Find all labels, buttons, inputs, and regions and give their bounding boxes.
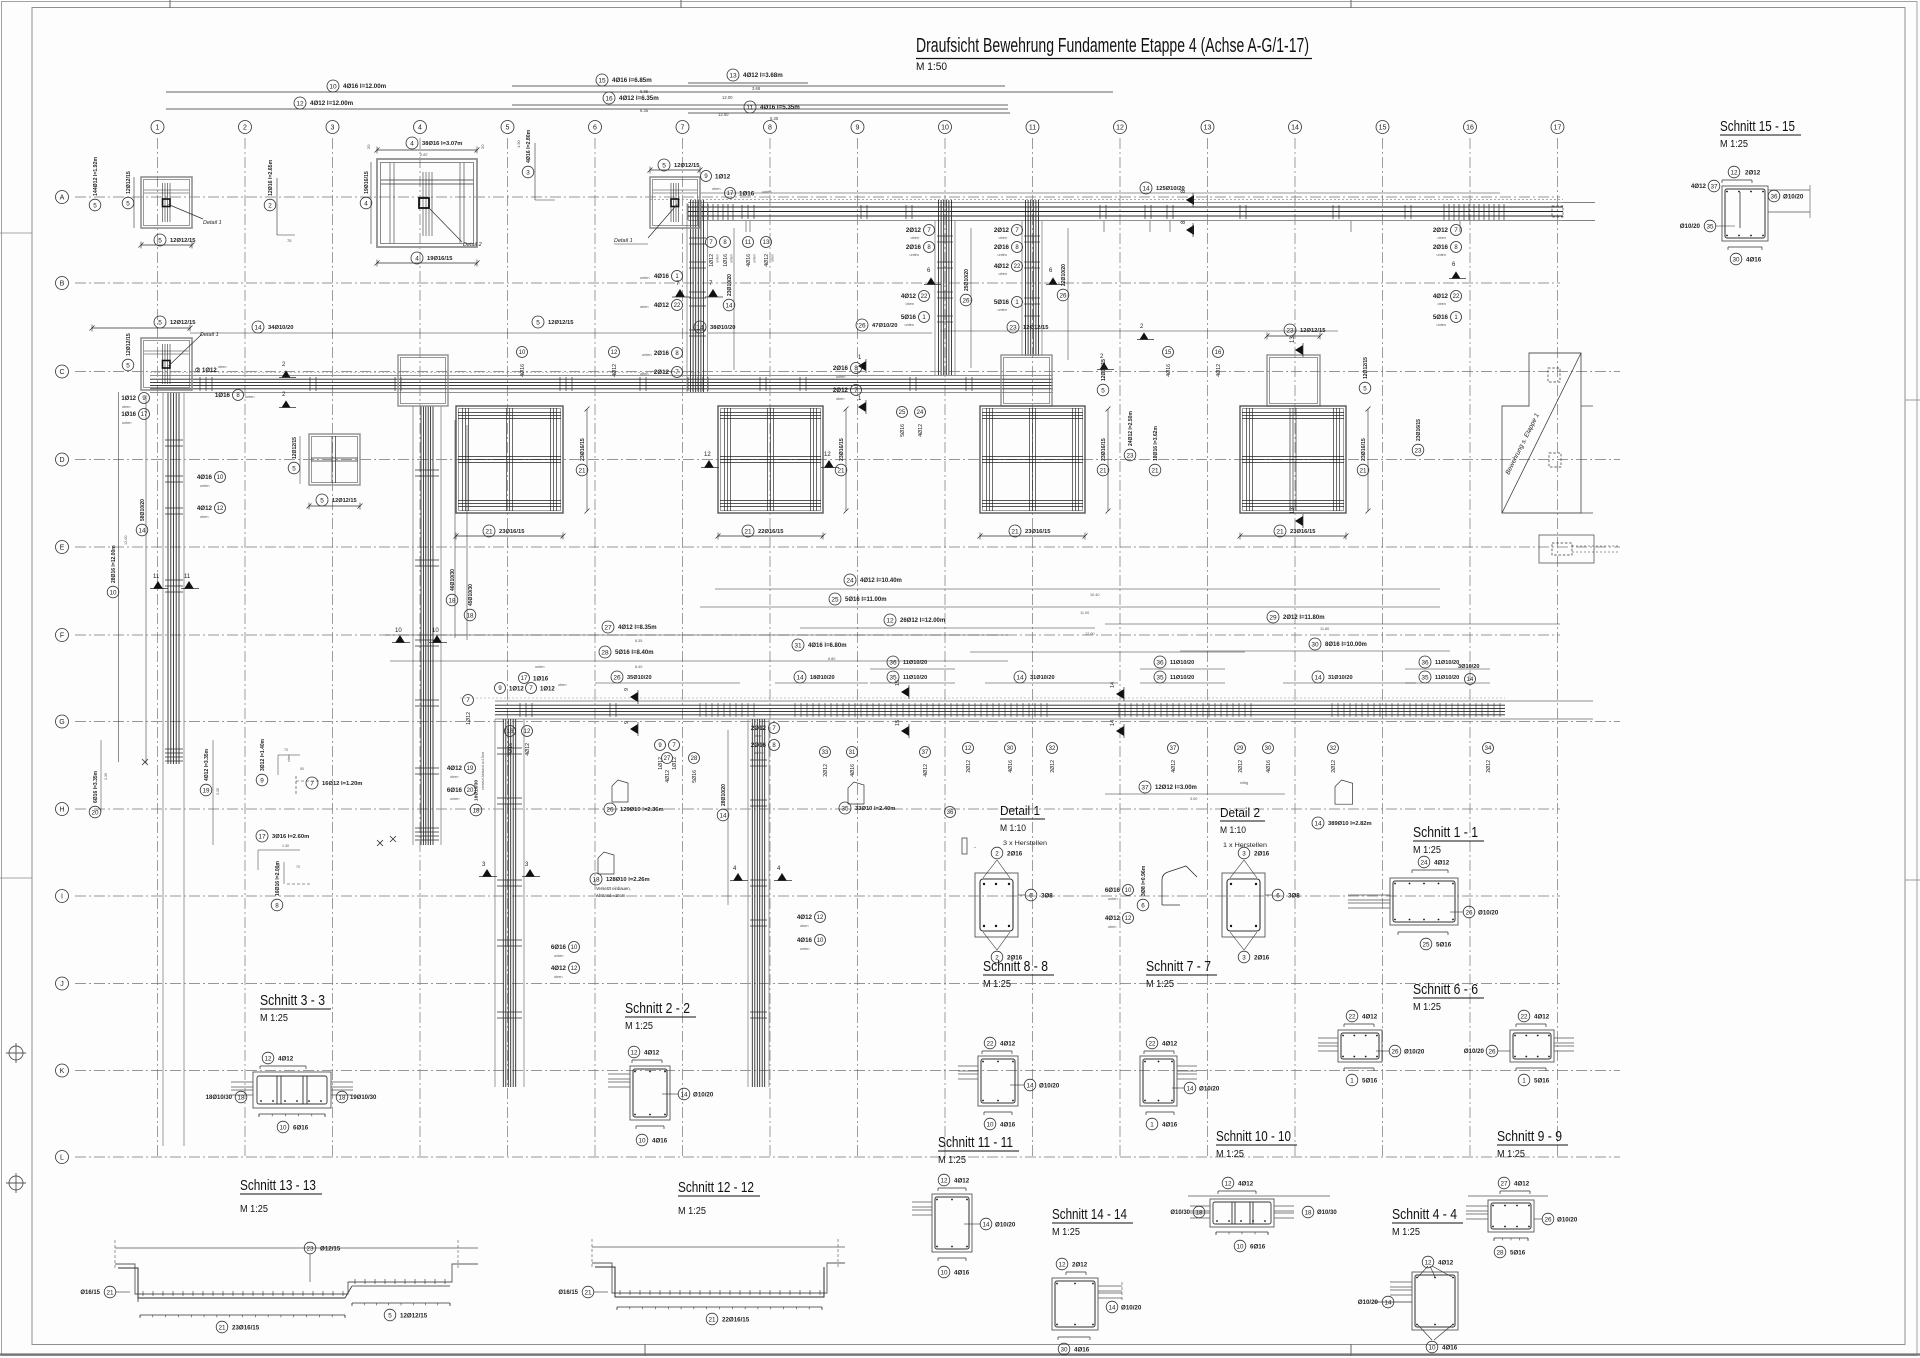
svg-text:4Ø12: 4Ø12 — [1514, 1181, 1530, 1188]
svg-text:14: 14 — [1467, 677, 1474, 683]
svg-text:9: 9 — [624, 721, 630, 724]
vertical strip grid 5 below G — [494, 719, 496, 1087]
svg-text:14: 14 — [725, 302, 733, 309]
svg-text:20: 20 — [91, 809, 99, 816]
svg-text:1Ø12: 1Ø12 — [709, 254, 715, 267]
svg-text:oben: oben — [287, 754, 291, 762]
grid10 strip ticks — [937, 236, 953, 322]
svg-text:12Ø12/15: 12Ø12/15 — [548, 320, 574, 326]
svg-text:5: 5 — [158, 319, 162, 326]
svg-text:25Ø10/20: 25Ø10/20 — [964, 269, 970, 291]
svg-text:2Ø16: 2Ø16 — [833, 365, 849, 372]
svg-text:35: 35 — [841, 805, 849, 812]
section marker 1-1 right — [858, 361, 866, 371]
dim 23 12O12/15 C14 — [1284, 324, 1296, 336]
svg-text:18: 18 — [592, 876, 600, 883]
vertical strip grid 11 (A-pad C11) — [1021, 221, 1023, 356]
svg-text:12.00: 12.00 — [722, 95, 733, 100]
pad A1 dimensions — [89, 199, 101, 211]
registration mark 2 — [9, 1176, 23, 1190]
svg-text:4Ø12 l=10.40m: 4Ø12 l=10.40m — [860, 578, 902, 584]
svg-text:3.35: 3.35 — [104, 773, 108, 780]
svg-text:36: 36 — [1421, 659, 1429, 666]
svg-text:21: 21 — [1276, 528, 1284, 535]
svg-text:7: 7 — [681, 125, 685, 132]
dashed detail 7 16O12 — [295, 776, 297, 796]
svg-text:M 1:25: M 1:25 — [260, 1013, 288, 1024]
svg-text:Ø16/15: Ø16/15 — [80, 1290, 100, 1296]
svg-text:10: 10 — [1236, 1243, 1244, 1250]
svg-text:35: 35 — [1421, 674, 1429, 681]
pad C4 (stem with strip) — [398, 355, 448, 406]
svg-text:4Ø16: 4Ø16 — [520, 364, 526, 377]
vertical strip grid 4 (padC4-down) — [412, 406, 414, 845]
pad A4 dimensions — [406, 137, 418, 149]
svg-text:22: 22 — [674, 303, 681, 309]
grid4 strip rebar — [421, 406, 433, 845]
svg-text:70: 70 — [284, 748, 288, 752]
svg-text:unten: unten — [997, 253, 1007, 257]
svg-text:Schnitt 9 - 9: Schnitt 9 - 9 — [1497, 1128, 1562, 1145]
svg-text:4Ø12: 4Ø12 — [1216, 364, 1222, 377]
grid7 strip rebar — [691, 200, 704, 392]
svg-text:4Ø12: 4Ø12 — [1438, 1260, 1454, 1267]
pad D5 (large hatched) — [456, 406, 563, 513]
svg-text:M 1:25: M 1:25 — [1392, 1227, 1420, 1238]
H row dim labels — [89, 806, 101, 818]
dim 3 4O16 — [522, 166, 534, 178]
svg-text:10: 10 — [1428, 1344, 1436, 1351]
svg-text:11: 11 — [1029, 125, 1036, 132]
axis A end detail grid 17 — [1552, 206, 1563, 217]
svg-text:5: 5 — [662, 162, 666, 169]
svg-text:12: 12 — [1424, 1259, 1432, 1266]
svg-text:36: 36 — [889, 659, 897, 666]
svg-text:4Ø16: 4Ø16 — [652, 1138, 668, 1145]
svg-text:4Ø12: 4Ø12 — [1162, 1041, 1178, 1048]
svg-text:15: 15 — [895, 680, 901, 686]
svg-text:23Ø16/15: 23Ø16/15 — [580, 438, 586, 461]
svg-text:M 1:25: M 1:25 — [1216, 1149, 1244, 1160]
svg-text:Ø10/20: Ø10/20 — [693, 1092, 714, 1099]
svg-text:2Ø16: 2Ø16 — [994, 244, 1010, 251]
svg-text:4: 4 — [418, 125, 422, 132]
svg-text:Ø10/20: Ø10/20 — [1478, 910, 1499, 917]
svg-text:oben: oben — [771, 254, 775, 262]
svg-text:4Ø12: 4Ø12 — [764, 254, 770, 267]
svg-text:3: 3 — [1242, 850, 1246, 857]
svg-text:12Ø12/15: 12Ø12/15 — [170, 238, 196, 244]
svg-text:11: 11 — [745, 240, 752, 246]
pad bottom dimensions — [483, 525, 495, 537]
svg-text:12: 12 — [524, 729, 531, 735]
labels below axis G — [655, 740, 666, 751]
svg-text:4Ø12: 4Ø12 — [612, 364, 618, 377]
svg-text:M 1:25: M 1:25 — [938, 1155, 966, 1166]
svg-text:Schnitt 11 - 11: Schnitt 11 - 11 — [938, 1134, 1013, 1151]
E row arrow line — [1189, 199, 1191, 201]
svg-text:14: 14 — [254, 324, 262, 331]
svg-text:4Ø12: 4Ø12 — [923, 764, 929, 777]
svg-text:M 1:10: M 1:10 — [1220, 825, 1246, 836]
svg-text:18: 18 — [472, 807, 480, 814]
svg-text:5Ø16: 5Ø16 — [901, 314, 917, 321]
svg-text:Detail 1: Detail 1 — [203, 220, 222, 226]
svg-text:23Ø16/15: 23Ø16/15 — [1361, 438, 1367, 461]
dim 37 12O12 — [1139, 781, 1151, 793]
vertical dims grid1 — [118, 392, 120, 762]
svg-text:35: 35 — [1706, 223, 1714, 230]
svg-text:4Ø12: 4Ø12 — [918, 424, 924, 437]
svg-text:5Ø16: 5Ø16 — [1436, 942, 1452, 949]
svg-text:2Ø12: 2Ø12 — [1072, 1262, 1088, 1269]
svg-text:22: 22 — [1520, 1013, 1528, 1020]
svg-text:8Ø16 l=10.00m: 8Ø16 l=10.00m — [1325, 642, 1367, 648]
svg-text:11Ø10/20: 11Ø10/20 — [1435, 675, 1459, 681]
svg-text:2: 2 — [243, 125, 247, 132]
svg-text:K: K — [60, 1068, 65, 1075]
svg-text:389Ø10 l=2.82m: 389Ø10 l=2.82m — [1328, 821, 1372, 827]
svg-text:12Ø12/15: 12Ø12/15 — [1300, 328, 1326, 334]
top dimension group — [327, 80, 339, 92]
section marker 15 on G — [901, 687, 909, 697]
svg-text:11Ø10/20: 11Ø10/20 — [1435, 660, 1459, 666]
svg-text:14: 14 — [796, 674, 804, 681]
svg-text:H: H — [59, 807, 64, 814]
svg-text:Schnitt 1 - 1: Schnitt 1 - 1 — [1413, 824, 1478, 841]
svg-text:29: 29 — [1269, 614, 1277, 621]
svg-text:2Ø16: 2Ø16 — [1254, 955, 1270, 962]
svg-text:22: 22 — [921, 294, 928, 300]
svg-text:24Ø12 l=2.50m: 24Ø12 l=2.50m — [1128, 411, 1134, 446]
strip footing axis G — [495, 700, 1593, 702]
svg-text:4Ø16: 4Ø16 — [1442, 1345, 1458, 1352]
svg-text:Schnitt 10 - 10: Schnitt 10 - 10 — [1216, 1128, 1291, 1145]
svg-text:oben: oben — [712, 187, 720, 191]
svg-text:34: 34 — [1485, 746, 1492, 752]
svg-text:8.40: 8.40 — [635, 665, 642, 669]
svg-text:37: 37 — [922, 750, 929, 756]
svg-text:oben: oben — [640, 305, 648, 309]
svg-text:17: 17 — [521, 676, 528, 682]
svg-text:12: 12 — [264, 1055, 272, 1062]
svg-text:11.00: 11.00 — [1080, 611, 1089, 615]
svg-text:37: 37 — [1170, 746, 1177, 752]
svg-text:4: 4 — [364, 200, 368, 207]
svg-text:versetzt Abstand a=15cm: versetzt Abstand a=15cm — [481, 752, 485, 790]
vertical dims right pads area — [1097, 384, 1109, 396]
svg-text:28: 28 — [691, 756, 698, 762]
svg-text:12: 12 — [1125, 916, 1132, 922]
svg-text:Schnitt 7 - 7: Schnitt 7 - 7 — [1146, 958, 1211, 975]
svg-text:oben: oben — [200, 515, 208, 519]
svg-text:Ø10/20: Ø10/20 — [995, 1222, 1016, 1229]
svg-text:25: 25 — [899, 410, 906, 416]
svg-text:31: 31 — [794, 642, 802, 649]
svg-text:14: 14 — [719, 812, 727, 819]
grid5 lower strip ticks — [497, 748, 522, 1018]
svg-text:1.90: 1.90 — [516, 139, 521, 148]
svg-text:Schnitt 14 - 14: Schnitt 14 - 14 — [1052, 1206, 1127, 1223]
svg-text:1.30: 1.30 — [282, 844, 289, 848]
svg-text:4Ø12: 4Ø12 — [1691, 183, 1707, 190]
svg-text:10: 10 — [395, 628, 402, 634]
svg-text:21: 21 — [1099, 467, 1107, 474]
svg-text:1: 1 — [1522, 1077, 1526, 1084]
svg-text:12: 12 — [940, 1177, 948, 1184]
svg-text:M 1:50: M 1:50 — [916, 61, 947, 73]
svg-text:29: 29 — [1237, 746, 1244, 752]
svg-text:12.00: 12.00 — [124, 535, 128, 545]
svg-text:26: 26 — [606, 806, 614, 813]
svg-text:3Ø10/20: 3Ø10/20 — [1458, 664, 1479, 670]
svg-text:12Ø12/15: 12Ø12/15 — [1023, 325, 1049, 331]
svg-text:Ø10/20: Ø10/20 — [1039, 1083, 1060, 1090]
svg-text:Schnitt 3 - 3: Schnitt 3 - 3 — [260, 992, 325, 1009]
dashed column boxes — [1548, 368, 1560, 382]
svg-text:6Ø16: 6Ø16 — [1250, 1244, 1266, 1251]
svg-text:12: 12 — [1224, 1180, 1232, 1187]
svg-text:4Ø16: 4Ø16 — [654, 273, 670, 280]
svg-text:23Ø16/15: 23Ø16/15 — [1290, 529, 1316, 535]
svg-text:Versetzt einbauen,: Versetzt einbauen, — [596, 886, 631, 891]
svg-text:18: 18 — [237, 1094, 245, 1101]
svg-text:24: 24 — [846, 577, 854, 584]
svg-text:12.00: 12.00 — [1085, 632, 1095, 636]
svg-text:12: 12 — [886, 617, 894, 624]
svg-text:4Ø12 l=12.00m: 4Ø12 l=12.00m — [310, 100, 354, 107]
svg-text:16Ø12 l=1.20m: 16Ø12 l=1.20m — [322, 781, 362, 787]
svg-text:22: 22 — [1348, 1013, 1356, 1020]
svg-text:2Ø12: 2Ø12 — [1433, 227, 1449, 234]
axis G rebar lines — [495, 705, 1505, 715]
svg-text:10: 10 — [571, 945, 578, 951]
svg-text:21: 21 — [485, 528, 493, 535]
svg-text:14: 14 — [680, 1091, 688, 1098]
svg-text:F: F — [60, 633, 64, 640]
svg-text:2Ø12: 2Ø12 — [654, 369, 670, 376]
svg-text:4Ø16 l=12.00m: 4Ø16 l=12.00m — [343, 83, 387, 90]
svg-text:12: 12 — [1058, 1261, 1066, 1268]
svg-text:144Ø12 l=1.92m: 144Ø12 l=1.92m — [93, 157, 99, 196]
svg-text:4Ø16: 4Ø16 — [508, 743, 514, 756]
svg-text:E: E — [60, 545, 65, 552]
svg-text:129Ø10 l=2.36m: 129Ø10 l=2.36m — [620, 807, 664, 813]
X marks strip ends — [142, 759, 148, 765]
dim 26 47O10/20 — [856, 319, 868, 331]
svg-text:10: 10 — [432, 628, 439, 634]
svg-text:1: 1 — [1150, 1121, 1154, 1128]
svg-text:23: 23 — [1286, 327, 1294, 334]
svg-text:12: 12 — [630, 1049, 638, 1056]
lower small rect with dashed box — [1539, 535, 1594, 563]
svg-text:70: 70 — [296, 865, 300, 869]
svg-text:8.35: 8.35 — [635, 639, 642, 643]
svg-text:12: 12 — [965, 746, 972, 752]
svg-text:D: D — [59, 457, 64, 464]
svg-text:4Ø16: 4Ø16 — [1746, 257, 1762, 264]
vertical dims grid4 strip — [454, 420, 456, 638]
svg-text:6Ø16: 6Ø16 — [447, 787, 463, 794]
svg-text:Schnitt 4 - 4: Schnitt 4 - 4 — [1392, 1206, 1457, 1223]
svg-text:12: 12 — [571, 966, 578, 972]
svg-text:4Ø16 l=5.35m: 4Ø16 l=5.35m — [760, 104, 800, 111]
grid column axis lines — [158, 138, 1558, 1157]
svg-text:22: 22 — [986, 1040, 994, 1047]
svg-text:unten: unten — [535, 665, 545, 669]
svg-text:2Ø16: 2Ø16 — [654, 350, 670, 357]
svg-text:Ø10/20: Ø10/20 — [1404, 1049, 1425, 1056]
svg-text:26: 26 — [1465, 909, 1473, 916]
svg-text:14: 14 — [1142, 185, 1150, 192]
bent bar shape glyph — [612, 780, 628, 802]
svg-text:12: 12 — [824, 452, 831, 458]
svg-text:5: 5 — [506, 125, 510, 132]
bent bar shape glyph — [848, 782, 864, 804]
svg-text:5: 5 — [388, 1312, 392, 1319]
svg-text:1Ø12: 1Ø12 — [672, 757, 678, 770]
svg-text:30: 30 — [1060, 1346, 1068, 1353]
svg-text:4Ø16 l=2.80m: 4Ø16 l=2.80m — [526, 129, 532, 163]
svg-text:6: 6 — [1029, 892, 1033, 899]
svg-text:6Ø16: 6Ø16 — [551, 944, 567, 951]
svg-text:4Ø16: 4Ø16 — [1166, 364, 1172, 377]
svg-text:2Ø12: 2Ø12 — [906, 227, 922, 234]
svg-text:Abstand =15cm: Abstand =15cm — [596, 893, 626, 898]
svg-text:2Ø12: 2Ø12 — [966, 760, 972, 773]
svg-text:L: L — [60, 1155, 64, 1162]
section marker 14 on G — [1116, 689, 1124, 699]
svg-text:12: 12 — [217, 506, 224, 512]
svg-text:33Ø10 l=2.40m: 33Ø10 l=2.40m — [855, 806, 895, 812]
svg-text:26: 26 — [962, 297, 970, 304]
svg-text:C: C — [59, 369, 64, 376]
svg-text:32: 32 — [1330, 746, 1337, 752]
svg-text:5Ø16: 5Ø16 — [1362, 1078, 1378, 1085]
svg-text:5: 5 — [126, 362, 130, 369]
svg-text:Ø10/20: Ø10/20 — [1121, 1305, 1142, 1312]
axis G stirrup ticks — [700, 703, 754, 717]
dim 34O10/20 — [252, 321, 264, 333]
svg-text:36: 36 — [1156, 659, 1164, 666]
svg-text:3Ø16 l=2.60m: 3Ø16 l=2.60m — [272, 834, 309, 840]
grid5 lower strip rebar — [503, 719, 515, 1087]
svg-text:Ø10/30: Ø10/30 — [1317, 1210, 1337, 1216]
svg-text:6.80: 6.80 — [828, 657, 835, 661]
svg-text:unten: unten — [1436, 253, 1446, 257]
svg-text:3.68: 3.68 — [752, 86, 761, 91]
svg-text:12Ø12/15: 12Ø12/15 — [674, 163, 700, 169]
svg-text:1Ø16: 1Ø16 — [533, 676, 549, 683]
svg-text:13: 13 — [763, 240, 770, 246]
svg-text:19: 19 — [202, 787, 210, 794]
svg-text:oben: oben — [906, 302, 914, 306]
svg-text:3: 3 — [1242, 954, 1246, 961]
svg-text:oben: oben — [1438, 236, 1446, 240]
svg-text:1Ø12: 1Ø12 — [466, 712, 472, 725]
svg-text:21: 21 — [578, 467, 586, 474]
svg-text:16: 16 — [507, 729, 514, 735]
svg-text:M 1:25: M 1:25 — [1413, 1002, 1441, 1013]
middle dim lines — [844, 574, 856, 586]
svg-text:Schnitt 15 - 15: Schnitt 15 - 15 — [1720, 118, 1795, 135]
svg-text:18: 18 — [338, 1094, 346, 1101]
svg-text:oben: oben — [450, 775, 458, 779]
grid11 strip ticks — [1024, 236, 1040, 316]
grid column bubbles 1-17 — [151, 121, 164, 134]
svg-text:unten: unten — [836, 375, 846, 379]
svg-text:75: 75 — [287, 238, 292, 243]
vertical strip grid 1 (C-down) — [162, 393, 164, 1146]
svg-text:4Ø16: 4Ø16 — [850, 764, 856, 777]
grid1 strip ticks — [165, 440, 183, 592]
svg-text:4Ø12 l=6.35m: 4Ø12 l=6.35m — [619, 95, 659, 102]
svg-text:4Ø16: 4Ø16 — [1266, 760, 1272, 773]
G band top dims — [887, 656, 899, 668]
Detail 1 drawing — [975, 873, 1018, 937]
svg-text:17: 17 — [258, 833, 266, 840]
label leader ticks below band A — [746, 221, 1460, 232]
svg-text:1Ø16: 1Ø16 — [215, 392, 231, 399]
svg-text:14: 14 — [1314, 674, 1322, 681]
svg-text:19Ø10/30: 19Ø10/30 — [350, 1095, 377, 1101]
svg-text:14: 14 — [1016, 674, 1024, 681]
svg-text:26Ø12 l=12.00m: 26Ø12 l=12.00m — [900, 618, 945, 624]
strip footing axis A (grid 7-17) — [650, 199, 1563, 201]
svg-text:oben: oben — [800, 924, 808, 928]
svg-text:Ø10/30: Ø10/30 — [1170, 1210, 1190, 1216]
svg-text:13: 13 — [1204, 125, 1212, 132]
pad A1 — [141, 177, 192, 228]
svg-text:M 1:25: M 1:25 — [678, 1206, 706, 1217]
labels grid4 strip left — [505, 726, 516, 737]
pad D8 (large hatched) — [718, 406, 823, 513]
svg-text:5.35: 5.35 — [770, 116, 779, 121]
svg-text:4Ø16: 4Ø16 — [1162, 1122, 1178, 1129]
svg-text:4Ø16: 4Ø16 — [797, 937, 813, 944]
svg-text:12Ø12/15: 12Ø12/15 — [1363, 357, 1369, 379]
diagonal with text — [1502, 353, 1581, 513]
svg-text:19Ø16/15: 19Ø16/15 — [364, 171, 370, 194]
grid row axis lines — [75, 197, 1620, 1157]
svg-text:14: 14 — [1108, 1304, 1116, 1311]
svg-text:1Ø16: 1Ø16 — [739, 191, 755, 198]
svg-text:M 1:25: M 1:25 — [1413, 845, 1441, 856]
svg-text:45Ø10/30: 45Ø10/30 — [468, 584, 474, 606]
S12-12 trough profile — [592, 1246, 845, 1248]
svg-text:13: 13 — [1290, 507, 1296, 514]
svg-text:22Ø16/15: 22Ø16/15 — [722, 1317, 750, 1324]
svg-text:26: 26 — [1059, 292, 1067, 299]
grid8 lower strip rebar — [752, 719, 764, 1087]
svg-text:1Ø12: 1Ø12 — [715, 174, 731, 181]
dim 23 12O12/15 C11 — [1007, 321, 1019, 333]
pad C1 — [141, 338, 192, 390]
svg-text:1Ø12: 1Ø12 — [509, 687, 524, 693]
svg-text:4Ø12: 4Ø12 — [654, 302, 670, 309]
svg-text:1 x Herstellen: 1 x Herstellen — [1223, 842, 1267, 849]
svg-text:20: 20 — [366, 144, 371, 149]
svg-text:26: 26 — [1488, 1048, 1496, 1055]
svg-text:28: 28 — [601, 649, 609, 656]
svg-text:10.40: 10.40 — [1090, 593, 1100, 597]
svg-text:10: 10 — [109, 589, 117, 596]
svg-text:2Ø16: 2Ø16 — [906, 244, 922, 251]
svg-text:18Ø10/20: 18Ø10/20 — [810, 675, 835, 681]
svg-text:12: 12 — [704, 452, 711, 458]
svg-text:20: 20 — [467, 788, 474, 794]
svg-text:2Ø12: 2Ø12 — [823, 764, 829, 777]
